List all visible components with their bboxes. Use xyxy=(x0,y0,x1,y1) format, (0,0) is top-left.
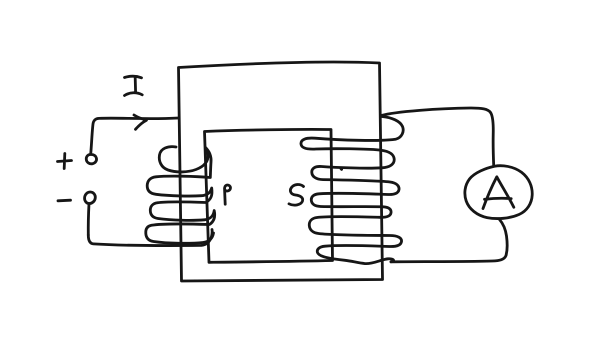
ammeter letter A xyxy=(483,177,514,209)
transformer core outer rectangle xyxy=(179,62,383,281)
minus terminal symbol xyxy=(58,199,71,202)
label I (current) xyxy=(125,76,143,95)
wire from ammeter bottom to secondary bottom xyxy=(391,220,507,262)
current arrow head xyxy=(134,115,147,129)
label S xyxy=(289,185,304,206)
node lower terminal xyxy=(85,192,96,235)
transformer core inner rectangle xyxy=(205,129,333,262)
label P xyxy=(225,185,231,204)
wire from secondary top to ammeter xyxy=(382,108,494,166)
pen dot on core xyxy=(340,167,343,170)
secondary coil S (winding on right core limb) xyxy=(301,117,403,264)
ammeter A (meter circle) xyxy=(465,166,532,219)
plus terminal symbol xyxy=(58,154,72,169)
primary coil P (winding on left core limb) xyxy=(146,147,215,244)
node upper terminal xyxy=(86,154,96,163)
wire from - terminal down and right to primary coil bottom xyxy=(88,230,212,246)
wire from + terminal up and right with current arrow xyxy=(91,118,179,154)
